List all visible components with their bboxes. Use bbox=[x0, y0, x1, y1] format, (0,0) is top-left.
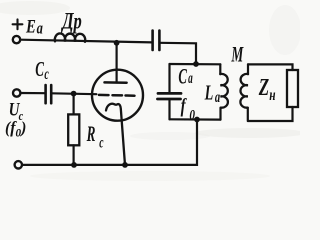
junction anode node bbox=[114, 40, 120, 46]
load impedance Zn box bbox=[287, 70, 298, 107]
wire Rc to bottom rail bbox=[72, 145, 74, 165]
capacitor Ca lead top bbox=[168, 64, 170, 93]
capacitor Cc plates bbox=[44, 85, 47, 103]
svg-text:Др: Др bbox=[61, 9, 82, 34]
capacitor Ca plates bbox=[158, 92, 181, 95]
svg-text:M: M bbox=[231, 42, 244, 66]
load coil bumps bbox=[240, 74, 248, 108]
terminal input Uc bbox=[13, 89, 20, 96]
wire grid node down bbox=[72, 94, 74, 115]
terminal +Ea bbox=[13, 36, 20, 43]
wire Cc to grid bbox=[51, 92, 96, 95]
wire input to Cc bbox=[21, 92, 46, 94]
load coil vertical leads bbox=[247, 64, 249, 74]
resistor Rc bbox=[68, 114, 79, 145]
plus sign of +Ea bbox=[13, 23, 23, 25]
tube anode plate bbox=[105, 81, 127, 84]
inductor La bumps bbox=[220, 74, 228, 108]
tube envelope U1 bbox=[92, 70, 143, 121]
junction cathode bottom node bbox=[122, 162, 128, 168]
tank top rail bbox=[170, 63, 221, 66]
terminal bottom bbox=[15, 161, 22, 168]
tube grid dashes bbox=[99, 94, 109, 97]
tank bottom rail bbox=[170, 118, 221, 120]
wire tank to bottom rail bbox=[22, 120, 197, 165]
load loop right/bottom bbox=[248, 107, 293, 121]
junction tank top node bbox=[193, 61, 199, 67]
inductor La vertical leads bbox=[219, 64, 221, 74]
wire cap to tank bbox=[160, 43, 196, 64]
junction tank bottom node bbox=[194, 117, 200, 123]
inductor Dr bbox=[55, 33, 85, 41]
junction grid node bbox=[71, 91, 77, 97]
capacitor Ca lead bottom bbox=[168, 99, 170, 119]
tube cathode bbox=[106, 104, 125, 165]
load loop top rail bbox=[248, 64, 293, 70]
junction Rc bottom node bbox=[71, 162, 77, 168]
svg-text:Cа: Cа bbox=[178, 64, 193, 88]
wire top rail bbox=[20, 40, 152, 43]
tube anode lead bbox=[115, 43, 117, 83]
capacitor coupling bbox=[151, 31, 154, 51]
